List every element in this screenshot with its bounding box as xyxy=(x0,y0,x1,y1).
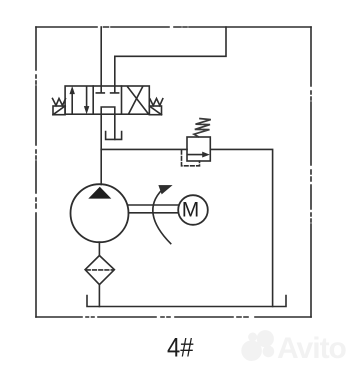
motor label M xyxy=(182,199,200,222)
wire relief valve to tank line xyxy=(210,149,272,306)
directional valve V1 body xyxy=(65,86,149,114)
valve right position crossed flow xyxy=(128,87,148,114)
valve left position arrows xyxy=(70,87,89,114)
tank symbol under valve xyxy=(106,132,122,140)
frame border bottom xyxy=(36,316,311,318)
wire pump to relief valve xyxy=(101,148,187,150)
rotation arrow xyxy=(153,185,172,243)
valve centre position blocked ports xyxy=(96,86,118,93)
wire P valve to pump xyxy=(100,114,102,184)
motor shaft xyxy=(129,205,179,213)
solenoid left xyxy=(53,106,65,115)
spring right xyxy=(150,99,163,106)
relief valve pilot line (dashed) xyxy=(182,151,200,166)
wire port A to frame top xyxy=(100,27,102,86)
svg-text:4#: 4# xyxy=(167,332,194,362)
wire port B up and right to frame top xyxy=(115,27,226,86)
relief valve RV1 body xyxy=(187,137,210,161)
motor M1 xyxy=(178,195,208,225)
valve centre position P-T bridge xyxy=(101,107,115,114)
wire pump to filter xyxy=(98,242,100,255)
frame border top xyxy=(36,26,311,28)
wire filter to tank xyxy=(98,285,100,307)
svg-text:M: M xyxy=(182,199,200,222)
svg-text:Avito: Avito xyxy=(277,332,347,365)
wire T valve to tank xyxy=(114,114,116,139)
watermark Avito logo xyxy=(241,330,274,361)
tank reservoir bottom xyxy=(87,296,286,307)
spring left xyxy=(53,99,66,106)
frame border right xyxy=(310,27,312,317)
solenoid right xyxy=(149,106,161,115)
pump P1 xyxy=(71,184,129,242)
frame border left xyxy=(35,27,37,317)
filter F1 xyxy=(85,256,114,285)
relief valve internal arrow xyxy=(188,152,210,157)
relief valve spring xyxy=(194,119,211,137)
